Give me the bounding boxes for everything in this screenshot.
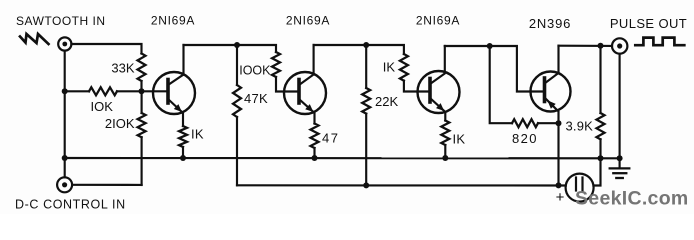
svg-text:47: 47: [322, 131, 339, 146]
node 820 emitter junction: [556, 120, 562, 126]
wire 1K to Q3 base: [404, 81, 430, 92]
wire Q4 collector to output terminal: [559, 45, 613, 47]
transistor Q1 2N169A emitter lead: [168, 99, 183, 126]
svg-text:IOK: IOK: [91, 99, 114, 114]
resistor R11 820: [512, 119, 538, 127]
transistor Q3 2N169A emitter lead: [430, 98, 445, 121]
svg-text:PULSE OUT: PULSE OUT: [610, 16, 687, 31]
wire 820 feed: [490, 46, 512, 123]
wire 210K to d-c control line: [141, 137, 143, 185]
node ground junction: [617, 155, 623, 161]
wire 47K upper lead: [236, 45, 238, 85]
transistor Q2 2N169A collector lead: [299, 45, 314, 85]
svg-text:3.9K: 3.9K: [565, 119, 593, 134]
transistor Q2 2N169A emitter lead: [299, 99, 315, 124]
svg-text:2N396: 2N396: [529, 16, 571, 31]
transistor Q4 2N396 collector lead: [545, 46, 559, 84]
wire input to 33K: [71, 44, 141, 54]
wire left input rail: [64, 51, 66, 178]
battery B1 positive plate: [581, 178, 583, 191]
wire d-c bias line: [237, 184, 566, 186]
transistor Q1 2N169A collector lead: [168, 45, 184, 85]
ground symbol stem: [619, 158, 621, 168]
svg-text:SeekIC.com: SeekIC.com: [575, 188, 689, 210]
wire emitter ground bus: [65, 157, 620, 159]
node Q1 base junction: [139, 88, 145, 94]
ground symbol bar 2: [613, 172, 626, 174]
svg-text:IK: IK: [383, 60, 396, 75]
svg-text:2IOK: 2IOK: [105, 116, 135, 131]
transistor Q1 2N169A base bar: [166, 80, 170, 104]
resistor R4 1K Q1 emitter: [179, 126, 187, 147]
wire 33K to base node: [140, 81, 142, 91]
svg-text:33K: 33K: [111, 61, 134, 76]
svg-text:22K: 22K: [375, 94, 398, 109]
wire base node to 210K: [141, 91, 143, 113]
terminal J1 sawtooth input: [58, 37, 71, 50]
ground symbol bar 3: [616, 177, 623, 179]
transistor Q1 2N169A body circle: [153, 72, 195, 114]
transistor Q2 2N169A emitter arrow: [305, 104, 313, 112]
svg-text:+: +: [556, 189, 565, 206]
node 3.9K battery junction: [598, 155, 604, 161]
transistor Q3 2N169A body circle: [418, 71, 460, 113]
wire 22K upper lead: [365, 45, 367, 88]
svg-text:SAWTOOTH IN: SAWTOOTH IN: [16, 14, 106, 28]
node rail-10K junction: [62, 88, 68, 94]
resistor R10 1K Q3 emitter: [441, 121, 449, 146]
wire 3.9K to ground bus: [599, 139, 601, 158]
terminal J3 pulse output: [612, 38, 627, 53]
battery B1 circle: [566, 174, 594, 202]
transistor Q3 2N169A emitter arrow: [436, 103, 444, 111]
node 22K top junction: [363, 42, 369, 48]
transistor Q4 2N396 body circle: [531, 72, 571, 112]
wire Q3 collector to Q4 base: [445, 46, 545, 92]
wire rail to 10K: [65, 90, 89, 92]
transistor Q2 2N169A base bar: [297, 80, 301, 104]
transistor Q4 2N396 emitter arrow: [547, 100, 555, 108]
svg-text:820: 820: [512, 131, 538, 146]
svg-text:IOOK: IOOK: [239, 64, 271, 78]
ground symbol bar 1: [610, 167, 630, 169]
wire d-c control to 210K: [72, 184, 142, 186]
node rail-ground-bus junction: [62, 155, 68, 161]
svg-text:2NI69A: 2NI69A: [286, 14, 330, 28]
svg-text:IK: IK: [453, 132, 466, 147]
node 22K d-c line junction: [363, 182, 369, 188]
node 3.9K top junction: [598, 43, 604, 49]
transistor Q4 2N396 base bar: [543, 78, 547, 102]
node 47K top junction: [234, 42, 240, 48]
wire output terminal to ground: [619, 54, 621, 159]
wire 100K to Q2 base: [276, 77, 299, 92]
wire 10K to base node: [117, 90, 142, 92]
resistor R8 22K: [362, 88, 370, 114]
wire Q2 collector bus to 1K: [314, 45, 404, 54]
svg-text:IK: IK: [191, 127, 204, 142]
wire Q1 base lead: [142, 90, 169, 92]
wire 47K to d-c line: [236, 117, 238, 185]
wire R10 to ground bus: [444, 145, 446, 158]
wire 820 to Q4 emitter: [538, 122, 559, 124]
svg-text:47K: 47K: [244, 91, 268, 106]
node R10-bus junction: [442, 155, 448, 161]
node 820 feed junction: [487, 43, 493, 49]
pulse waveform symbol: [635, 38, 684, 46]
node R7-bus junction: [312, 155, 318, 161]
battery B1 negative plate: [575, 178, 577, 191]
wire R4 to ground bus: [182, 147, 184, 158]
node R4-bus junction: [180, 155, 186, 161]
resistor R5 47K: [233, 85, 241, 117]
resistor R1 33K: [138, 54, 146, 82]
transistor Q2 2N169A body circle: [284, 72, 326, 114]
terminal J2 d-c control input: [57, 177, 72, 192]
resistor R9 1K: [400, 54, 408, 81]
transistor Q3 2N169A base bar: [428, 79, 432, 103]
resistor R6 100K: [272, 52, 280, 77]
wire 22K to d-c line: [365, 114, 367, 186]
wire Q1 collector bus to 100K: [184, 45, 277, 52]
svg-text:2NI69A: 2NI69A: [151, 14, 195, 28]
transistor Q3 2N169A collector lead: [430, 46, 445, 84]
transistor Q1 2N169A emitter arrow: [174, 104, 182, 112]
resistor R12 3.9K: [597, 113, 605, 139]
svg-text:D-C CONTROL IN: D-C CONTROL IN: [15, 198, 126, 212]
resistor R2 10K: [89, 87, 117, 95]
wire R7 to ground bus: [313, 148, 315, 158]
wire battery positive riser: [594, 158, 601, 185]
wire 3.9K upper lead: [599, 46, 601, 113]
resistor R7 47: [311, 124, 319, 149]
svg-text:2NI69A: 2NI69A: [416, 14, 460, 28]
node Q4 emitter d-c line junction: [556, 182, 562, 188]
sawtooth waveform symbol: [20, 34, 49, 44]
transistor Q4 2N396 emitter lead: [545, 98, 559, 186]
resistor R3 210K: [138, 113, 146, 137]
